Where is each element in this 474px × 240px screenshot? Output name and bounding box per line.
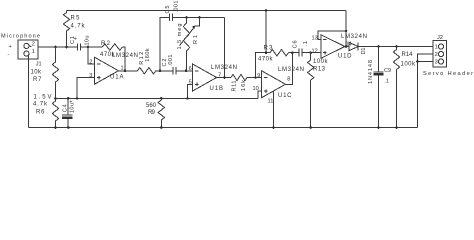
svg-text:C9: C9 — [384, 68, 391, 74]
wire: 1.5V bias rail — [56, 97, 258, 99]
wire: J1 pin2 to C1 — [38, 46, 78, 48]
svg-text:R11: R11 — [232, 81, 238, 92]
svg-text:10k: 10k — [31, 70, 43, 76]
svg-text:J2: J2 — [437, 35, 443, 41]
svg-text:U1A: U1A — [110, 75, 124, 81]
op-amp U1A — [89, 53, 138, 84]
svg-text:J1: J1 — [36, 61, 42, 67]
node: pot wiper junction — [198, 16, 201, 19]
capacitor C5 — [165, 1, 225, 22]
svg-text:R5: R5 — [71, 16, 81, 22]
wire: input node down to pin 2 — [88, 47, 95, 64]
svg-text:1.5 meg: 1.5 meg — [177, 24, 183, 50]
wire: feedback right riser to U1B output — [224, 18, 226, 78]
svg-text:Microphone: Microphone — [1, 34, 40, 40]
node: R3 to pin9 junction — [254, 76, 257, 79]
node: top rail junction at R3 pull-up — [265, 9, 268, 12]
wire: J1 pin1 to ground rail — [28, 55, 30, 127]
node: R13 junction on ground rail — [309, 126, 312, 129]
svg-text:LM324N: LM324N — [112, 53, 138, 59]
node: R9 junction on 1.5V rail — [160, 97, 163, 100]
svg-text:1.5V: 1.5V — [34, 95, 52, 101]
svg-text:LM324N: LM324N — [211, 65, 237, 71]
svg-text:R13: R13 — [313, 67, 326, 73]
op-amp U1C — [253, 67, 305, 99]
connector J2 — [423, 35, 473, 77]
svg-text:11: 11 — [268, 99, 274, 105]
node: output/feedback junction — [124, 69, 127, 72]
svg-text:160k: 160k — [145, 48, 151, 62]
svg-text:4.7k: 4.7k — [71, 24, 86, 30]
node: C4 junction on 1.5V rail — [67, 97, 70, 100]
svg-text:U1D: U1D — [338, 54, 352, 60]
svg-text:1N4148: 1N4148 — [368, 60, 374, 84]
node: C9 junction on ground rail — [377, 126, 380, 129]
node: U1C pin11 junction on ground rail — [272, 126, 275, 129]
svg-text:.001: .001 — [168, 55, 174, 67]
capacitor C4 (10u electrolytic) — [62, 98, 76, 127]
svg-text:R2: R2 — [101, 41, 111, 47]
node: U1A input node — [87, 46, 90, 49]
svg-text:LM324N: LM324N — [278, 67, 304, 73]
svg-text:2: 2 — [89, 60, 92, 66]
wire: top rail (U1D output net) — [67, 10, 347, 12]
svg-text:+: + — [74, 37, 77, 43]
resistor R12 — [138, 48, 156, 74]
svg-text:C5: C5 — [165, 6, 171, 14]
svg-text:13: 13 — [312, 35, 318, 41]
node: C5 feedback tap — [159, 69, 162, 72]
resistor R11 — [231, 74, 262, 91]
node: R7/R6 junction on 1.5V rail — [54, 97, 57, 100]
svg-text:LM324N: LM324N — [341, 34, 367, 40]
svg-text:U1C: U1C — [278, 93, 292, 99]
resistor R5 — [63, 11, 85, 48]
node: U1B output feedback junction — [223, 76, 226, 79]
wire: top rail drop to U1D output — [345, 11, 347, 47]
svg-text:+: + — [9, 44, 12, 50]
node: R6 junction on ground rail — [54, 126, 57, 129]
node: loop junction on output drop — [345, 30, 348, 33]
svg-text:-: - — [8, 52, 10, 58]
wire: U1B output — [217, 77, 231, 79]
svg-text:10u: 10u — [70, 103, 76, 113]
svg-text:10u: 10u — [85, 36, 91, 46]
resistor R9 — [146, 98, 165, 127]
svg-text:3: 3 — [89, 73, 92, 79]
svg-text:R3: R3 — [264, 46, 274, 52]
node: R9 junction on ground rail — [160, 126, 163, 129]
resistor R3 (pull-up) — [256, 46, 293, 78]
svg-text:6: 6 — [189, 66, 192, 72]
svg-text:4.7k: 4.7k — [33, 102, 48, 108]
node: J2 pin3 junction on ground drop — [416, 60, 419, 63]
wire: J2 pin2 to ground — [418, 54, 434, 128]
svg-text:3: 3 — [435, 60, 438, 66]
wire: U1D output to D1 — [345, 46, 349, 48]
node: U1A pin3 junction on 1.5V rail — [76, 97, 79, 100]
connector J1 — [8, 40, 42, 68]
node: top rail junction on U1D output — [345, 45, 348, 48]
svg-text:2: 2 — [435, 52, 438, 58]
svg-text:16k: 16k — [241, 80, 247, 91]
svg-text:.1: .1 — [384, 79, 389, 85]
svg-text:9: 9 — [257, 73, 260, 79]
op-amp U1B — [189, 64, 237, 92]
svg-text:C6: C6 — [292, 40, 298, 48]
wire: U1C output riser — [286, 53, 293, 85]
wire: pin3 to 1.5V rail — [77, 78, 95, 99]
capacitor C6 — [292, 40, 321, 56]
node: C4 junction on ground rail — [67, 126, 70, 129]
resistor R2 (feedback) — [88, 41, 125, 71]
wire: signal to R14 and J2 — [379, 46, 434, 48]
svg-text:560: 560 — [146, 103, 157, 109]
svg-text:1: 1 — [435, 45, 438, 51]
wire: ground rail — [29, 127, 418, 129]
wire: U1B pin5 to 1.5V rail — [188, 84, 193, 98]
diode D1 1N4148 — [349, 42, 379, 84]
svg-text:R9: R9 — [148, 110, 156, 116]
svg-text:.1: .1 — [303, 41, 309, 46]
capacitor C9 — [373, 47, 391, 128]
node: U1B pin5 junction on 1.5V rail — [186, 97, 189, 100]
wire: feedback left riser — [160, 18, 170, 71]
node: mic bias R7 tap — [54, 46, 57, 49]
pin 11 ground stub — [268, 91, 274, 128]
node: R14 junction on ground rail — [395, 126, 398, 129]
svg-text:R6: R6 — [36, 110, 45, 116]
svg-text:U1B: U1B — [210, 86, 224, 92]
wire: top rail to R3 — [265, 11, 267, 53]
wire: U1C pin10 to 1.5V rail — [258, 91, 262, 98]
svg-text:470k: 470k — [258, 57, 274, 63]
trimmer R1 — [177, 18, 200, 71]
node: pot top junction — [185, 16, 188, 19]
svg-text:R14: R14 — [402, 52, 414, 58]
svg-text:1: 1 — [32, 49, 35, 55]
svg-text:100k: 100k — [401, 62, 417, 68]
svg-text:C4: C4 — [63, 104, 69, 112]
wire: U1A output — [119, 70, 138, 72]
wire: R12 to C2 — [156, 70, 173, 72]
svg-text:12: 12 — [312, 49, 318, 55]
svg-text:100k: 100k — [313, 59, 329, 65]
wire: pin13 loop to output — [318, 31, 346, 40]
node: C9 tap — [377, 45, 380, 48]
node: R3 left junction — [265, 51, 268, 54]
resistor R6 — [33, 98, 59, 127]
svg-text:.001: .001 — [174, 1, 180, 13]
svg-text:2: 2 — [32, 42, 35, 48]
node: R13 tap — [309, 51, 312, 54]
resistor R13 — [308, 53, 329, 128]
svg-text:R7: R7 — [33, 77, 42, 83]
node: U1B pin6 node — [185, 69, 188, 72]
node: U1C output / C6 node — [291, 51, 294, 54]
op-amp U1D — [312, 34, 368, 60]
resistor R7 — [31, 47, 59, 98]
wire: J2 pin3 to ground — [418, 61, 434, 63]
svg-text:D1: D1 — [361, 48, 367, 55]
svg-text:8: 8 — [287, 77, 290, 83]
resistor R14 — [393, 47, 416, 128]
node: R5 junction on mic wire — [65, 46, 68, 49]
capacitor C1 — [70, 36, 91, 51]
capacitor C2 — [162, 55, 193, 75]
node: R14 tap — [395, 45, 398, 48]
